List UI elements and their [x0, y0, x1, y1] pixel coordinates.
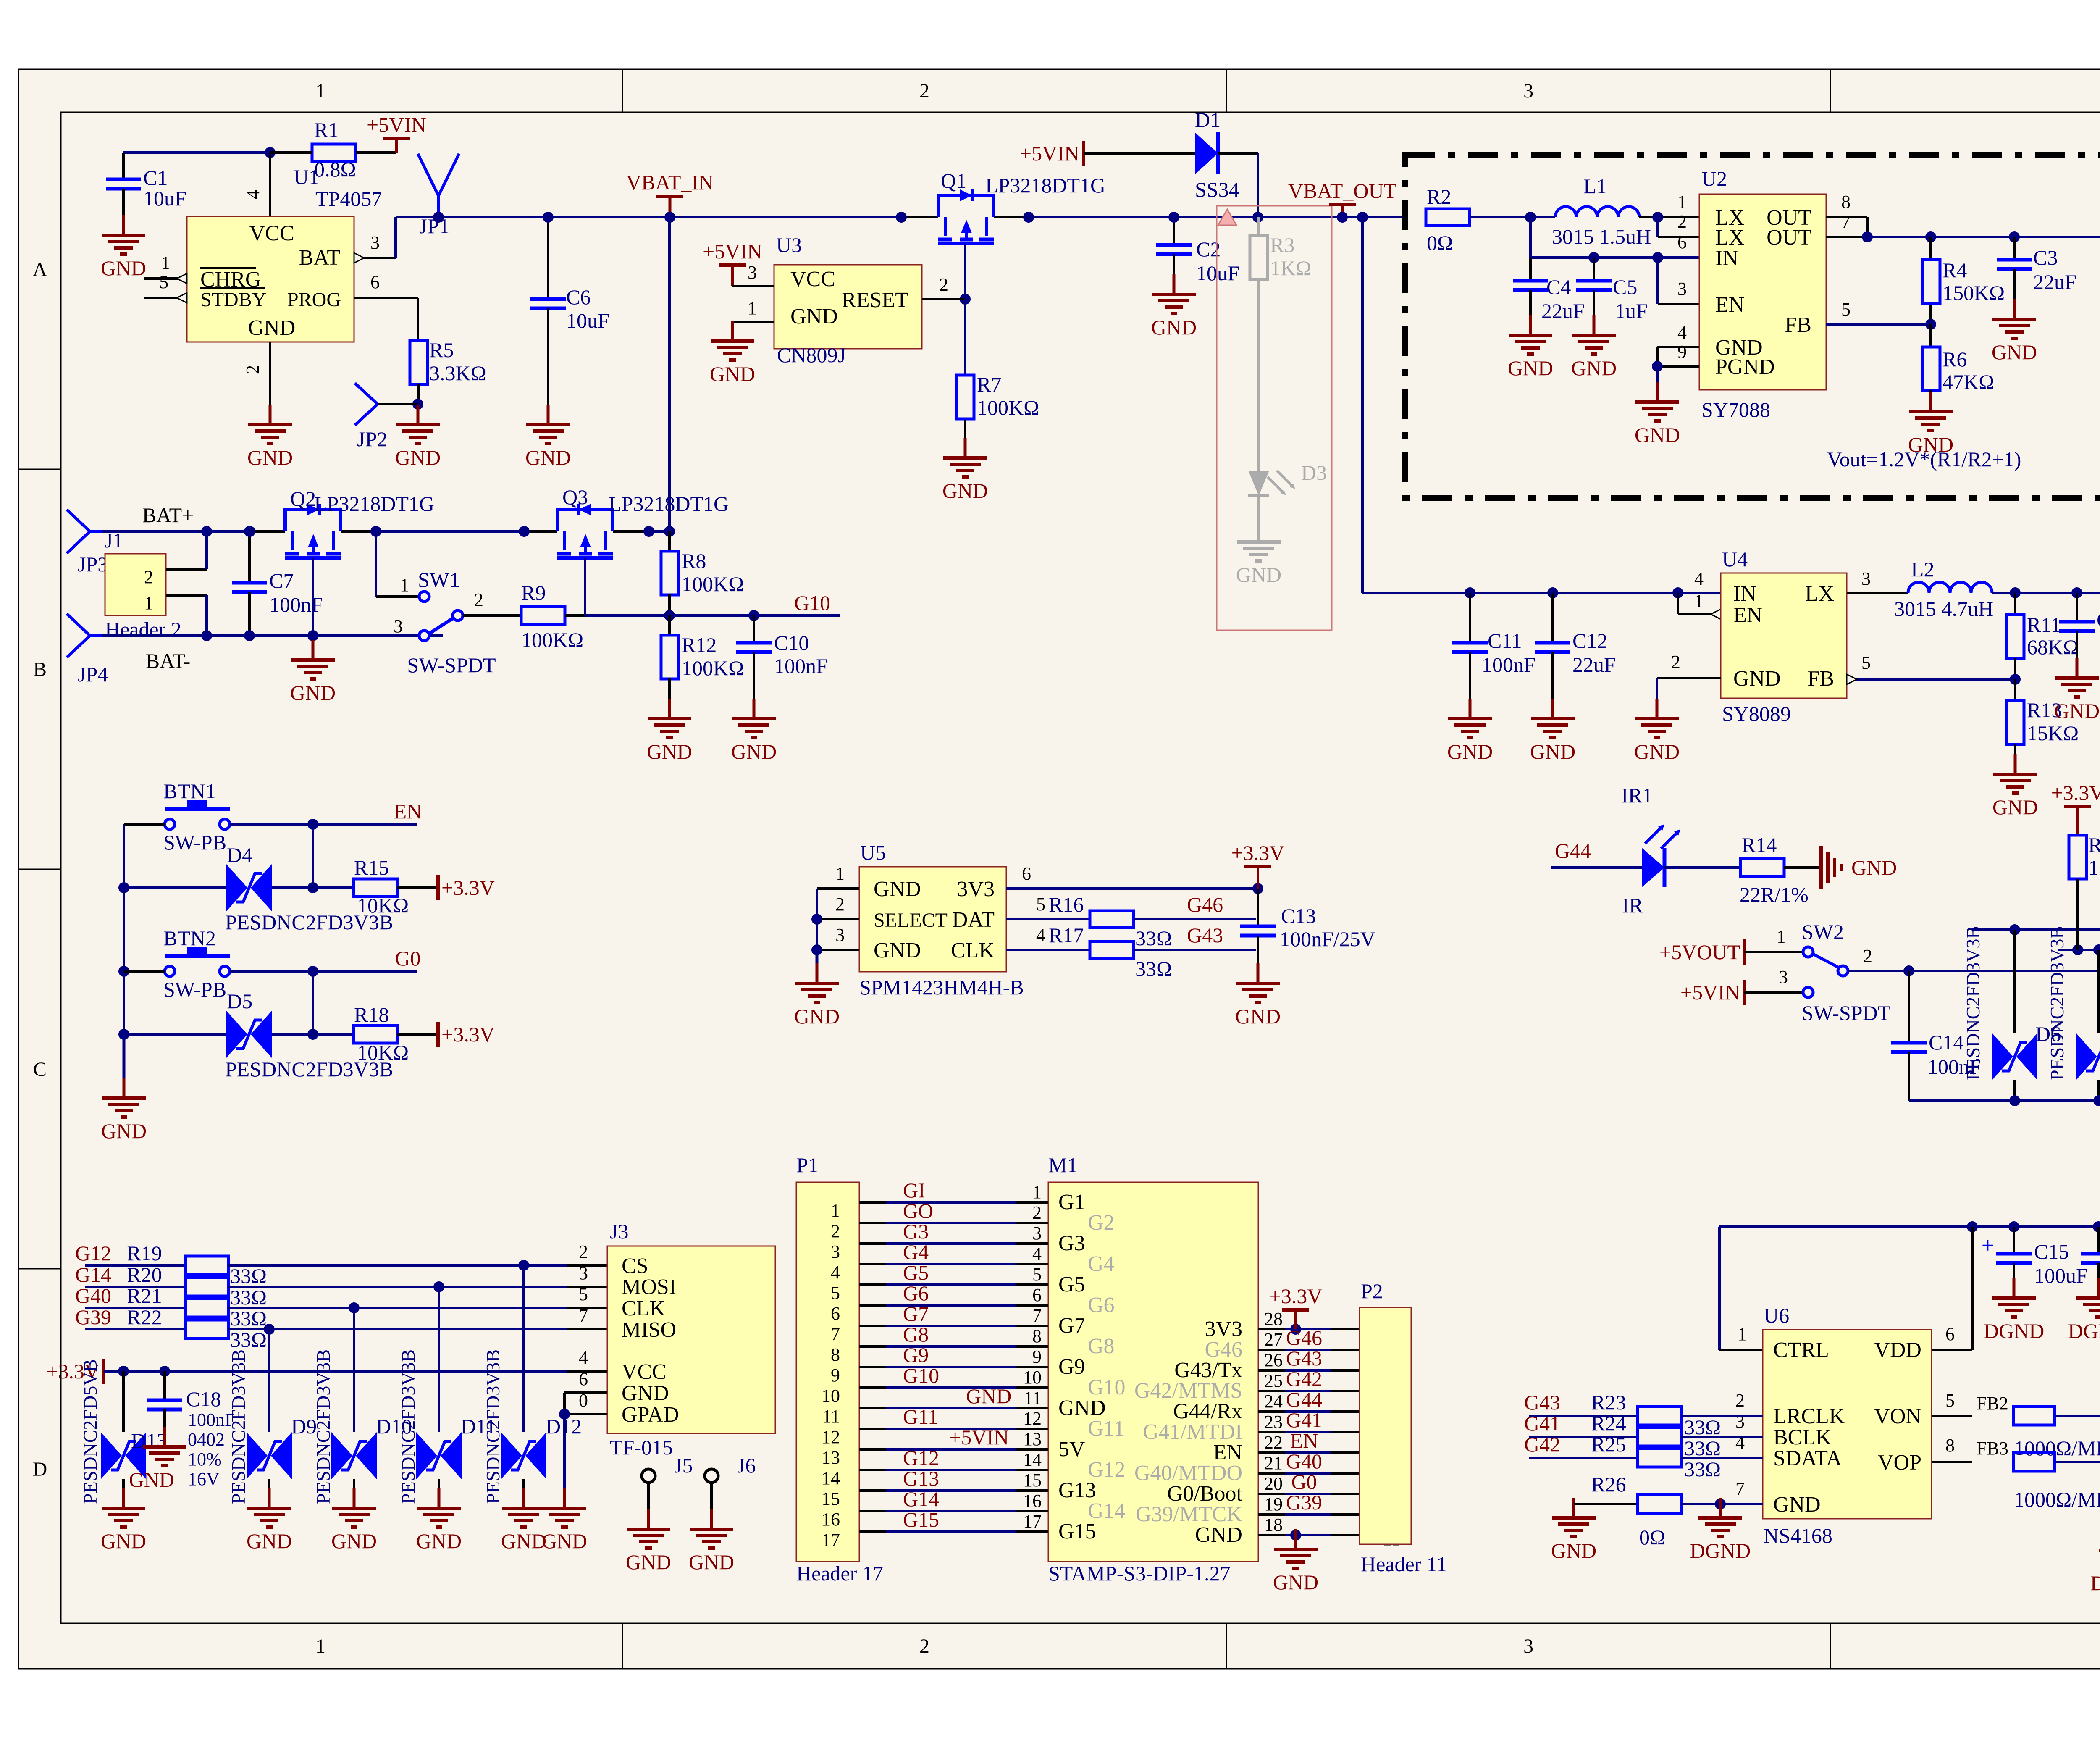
capacitor C11 — [1469, 593, 1471, 643]
VDD rail wire — [1719, 1225, 2100, 1228]
svg-text:6: 6 — [1032, 1285, 1042, 1305]
svg-text:1uF: 1uF — [1615, 299, 1648, 323]
svg-text:D13: D13 — [131, 1429, 167, 1452]
wire C1 to R1 — [123, 151, 270, 154]
svg-text:C7: C7 — [269, 569, 294, 592]
wire CTRL loop — [1718, 1227, 1721, 1350]
svg-text:21: 21 — [1264, 1453, 1283, 1473]
svg-text:G14: G14 — [75, 1263, 111, 1286]
U2 pin 8 7 out stubs — [1826, 216, 1867, 218]
svg-text:GND: GND — [626, 1550, 671, 1574]
node C18 — [159, 1366, 170, 1377]
svg-text:5: 5 — [831, 1283, 840, 1303]
wire rail to BTN2 — [124, 970, 165, 973]
wire pin4 riser — [269, 153, 271, 216]
wire P1-7 to M1 — [859, 1325, 886, 1327]
svg-text:D3: D3 — [1301, 461, 1327, 484]
svg-text:R6: R6 — [1942, 347, 1967, 371]
svg-text:G6: G6 — [1088, 1293, 1115, 1317]
svg-text:GND: GND — [290, 681, 336, 705]
svg-text:GND: GND — [1733, 667, 1781, 691]
svg-text:GND: GND — [1195, 1523, 1242, 1547]
svg-text:VCC: VCC — [790, 267, 835, 291]
svg-text:R17: R17 — [1049, 923, 1084, 947]
svg-text:1: 1 — [1694, 591, 1704, 611]
ground under M1 pin18 — [1290, 1530, 1301, 1541]
svg-text:U5: U5 — [860, 841, 886, 864]
resistor R12 — [668, 615, 671, 636]
svg-text:GND: GND — [416, 1529, 462, 1553]
svg-text:BAT+: BAT+ — [142, 503, 194, 527]
wire G43 to R23 — [1529, 1415, 1638, 1417]
svg-text:5: 5 — [1841, 299, 1851, 320]
ground under R12 — [668, 699, 671, 719]
svg-text:1: 1 — [1738, 1324, 1747, 1344]
side ground IR — [1819, 846, 1823, 889]
wire R8 to node — [668, 594, 671, 615]
svg-text:1000Ω/MB: 1000Ω/MB — [2014, 1488, 2100, 1511]
wire M1-27 to P2 — [1258, 1349, 1285, 1351]
U1 pin 2 GND stub — [269, 342, 271, 425]
ground under D3 greyed — [1257, 522, 1260, 542]
resistor R20 — [186, 1278, 228, 1296]
svg-text:CLK: CLK — [622, 1296, 665, 1320]
svg-text:L1: L1 — [1583, 174, 1607, 198]
resistor R13 — [2014, 679, 2016, 701]
svg-text:R2: R2 — [1427, 185, 1451, 208]
svg-text:14: 14 — [822, 1468, 840, 1488]
svg-text:+3.3V: +3.3V — [1231, 841, 1285, 865]
svg-text:GND: GND — [1508, 356, 1553, 380]
svg-text:20: 20 — [1264, 1473, 1283, 1494]
svg-text:6: 6 — [1677, 232, 1687, 252]
node pin9 — [1652, 361, 1663, 372]
wire R5 to JP2 node — [417, 384, 420, 404]
svg-text:SDATA: SDATA — [1773, 1446, 1842, 1470]
wire R17 to G43 — [1134, 949, 1256, 951]
svg-text:SY8089: SY8089 — [1722, 702, 1791, 726]
node J1 pin1 — [201, 630, 212, 641]
capacitor C10 — [753, 615, 755, 643]
svg-text:G3: G3 — [1058, 1231, 1085, 1255]
svg-text:3: 3 — [1677, 279, 1687, 299]
svg-text:U3: U3 — [776, 233, 802, 257]
node C7 top — [244, 526, 255, 537]
wire button rail — [123, 824, 125, 1034]
wire G40 row right — [228, 1307, 567, 1309]
resistor R22 — [186, 1320, 228, 1338]
U2 pins 4 9 ground stub — [1657, 346, 1699, 348]
svg-text:MISO: MISO — [622, 1318, 676, 1342]
svg-text:1: 1 — [315, 80, 325, 102]
svg-text:GND: GND — [1992, 340, 2037, 364]
node C7 bottom — [244, 630, 255, 641]
ground under C8 — [2076, 658, 2079, 678]
svg-text:TP4057: TP4057 — [315, 187, 382, 210]
svg-text:DGND: DGND — [2068, 1319, 2100, 1343]
svg-text:U2: U2 — [1701, 167, 1727, 190]
svg-text:1: 1 — [1677, 192, 1687, 212]
svg-text:STAMP-S3-DIP-1.27: STAMP-S3-DIP-1.27 — [1048, 1562, 1231, 1585]
svg-text:EN: EN — [394, 799, 422, 823]
wire P1-11 to M1 — [859, 1407, 886, 1409]
svg-text:GND: GND — [1634, 740, 1680, 763]
svg-text:Vout=1.2V*(R1/R2+1): Vout=1.2V*(R1/R2+1) — [1827, 447, 2021, 471]
svg-text:EN: EN — [1733, 603, 1762, 627]
wire M1-25 to P2 — [1258, 1390, 1285, 1392]
resistor R6 — [1929, 324, 1932, 348]
node C16 — [2093, 1221, 2100, 1232]
ic U3 CN809J box — [774, 265, 922, 349]
svg-text:+3.3V: +3.3V — [2051, 781, 2100, 805]
ground under U3 pin1 — [731, 321, 734, 341]
node D6 — [2009, 924, 2020, 935]
svg-text:BAT: BAT — [299, 246, 340, 270]
node R8 R12 — [664, 610, 675, 621]
svg-text:5: 5 — [159, 272, 168, 292]
U1 pin 6 PROG stub — [354, 297, 418, 299]
wire Q3 gate — [584, 558, 586, 615]
wire BTN1 to EN — [230, 823, 417, 826]
svg-text:GND: GND — [942, 479, 988, 502]
ground under C10 — [753, 699, 756, 719]
svg-text:2: 2 — [579, 1241, 588, 1262]
node C11 — [1465, 587, 1475, 598]
svg-text:SPM1423HM4H-B: SPM1423HM4H-B — [859, 975, 1024, 999]
resistor R15 — [354, 879, 397, 897]
svg-text:G41: G41 — [1286, 1408, 1322, 1432]
node D11 MOSI — [433, 1281, 444, 1292]
node R11 — [2010, 587, 2021, 598]
svg-text:7: 7 — [1032, 1305, 1042, 1326]
wire R26 to U6 GND — [1681, 1503, 1763, 1505]
svg-text:7: 7 — [1735, 1478, 1745, 1499]
svg-text:GND: GND — [874, 939, 921, 962]
node U4 riser — [1357, 212, 1368, 223]
pad J6 — [705, 1469, 718, 1483]
svg-text:C13: C13 — [1281, 904, 1316, 928]
capacitor C15 polarized — [2013, 1227, 2015, 1254]
svg-text:6: 6 — [1945, 1324, 1955, 1344]
svg-text:P2: P2 — [1361, 1279, 1383, 1303]
svg-text:3: 3 — [1735, 1411, 1745, 1432]
tvs diode D5 PESDNC2FD3V3B — [226, 1011, 247, 1058]
wire IN rail — [1530, 256, 1700, 259]
svg-text:5V: 5V — [1058, 1437, 1085, 1461]
resistor R5 — [410, 341, 428, 384]
ground under C4 — [1529, 315, 1532, 335]
svg-text:C6: C6 — [566, 285, 591, 309]
wire EN hook — [1656, 258, 1659, 304]
svg-text:10uF: 10uF — [143, 187, 186, 210]
svg-text:C14: C14 — [1929, 1031, 1963, 1054]
U5 left rail — [817, 887, 859, 890]
wire M1-18 to P2 — [1258, 1534, 1285, 1536]
transistor Q1 LP3218DT1G — [901, 216, 938, 218]
node D12 CS — [518, 1260, 529, 1271]
svg-text:RESET: RESET — [842, 288, 908, 312]
wire M1-20 to P2 — [1258, 1493, 1285, 1495]
U3 pin 1 stub — [732, 321, 774, 323]
resistor R11 — [2014, 593, 2016, 615]
svg-text:R22: R22 — [127, 1305, 162, 1329]
svg-text:R4: R4 — [1942, 258, 1967, 282]
svg-text:10uF: 10uF — [1196, 261, 1239, 285]
svg-text:GND: GND — [1530, 740, 1575, 763]
svg-text:G4: G4 — [1088, 1252, 1115, 1276]
U3 pin 2 RESET stub — [922, 298, 965, 300]
ground under R13 — [2014, 754, 2017, 774]
svg-text:C3: C3 — [2033, 246, 2058, 269]
node EN btn — [307, 819, 318, 830]
svg-text:9: 9 — [831, 1365, 840, 1386]
switch SW1 — [419, 592, 429, 602]
dground under C15 — [2013, 1278, 2016, 1298]
svg-text:3: 3 — [1861, 568, 1871, 589]
svg-text:5: 5 — [579, 1284, 588, 1304]
wire BAT riser to bus — [394, 217, 397, 258]
svg-text:150KΩ: 150KΩ — [1942, 281, 2005, 305]
ic U2 SY7088 box — [1699, 194, 1826, 390]
ground left of R26 — [1572, 1498, 1575, 1518]
svg-text:D5: D5 — [227, 989, 252, 1013]
svg-text:CLK: CLK — [951, 939, 995, 962]
svg-text:VCC: VCC — [249, 221, 294, 245]
svg-text:1: 1 — [1032, 1182, 1042, 1202]
svg-text:B: B — [33, 658, 47, 681]
svg-text:LX: LX — [1805, 582, 1834, 606]
svg-text:3015 4.7uH: 3015 4.7uH — [1894, 597, 1993, 621]
wire P1-16 to M1 — [859, 1510, 886, 1512]
svg-text:1: 1 — [315, 1635, 325, 1657]
svg-text:G43: G43 — [1187, 923, 1223, 947]
svg-text:7: 7 — [831, 1324, 840, 1344]
node C14 — [1903, 965, 1914, 976]
wire node to G10 — [585, 614, 840, 617]
svg-text:68KΩ: 68KΩ — [2027, 635, 2079, 659]
svg-text:IN: IN — [1733, 582, 1756, 606]
svg-text:18: 18 — [1264, 1515, 1283, 1535]
svg-text:1: 1 — [835, 863, 845, 884]
svg-text:DAT: DAT — [952, 908, 995, 932]
capacitor C7 — [248, 531, 251, 583]
node C13 top — [1252, 883, 1263, 894]
svg-text:GND: GND — [1851, 856, 1897, 879]
node D10 CLK — [349, 1302, 360, 1313]
svg-text:PESDNC2FD3V3B: PESDNC2FD3V3B — [228, 1349, 249, 1504]
resistor R8 — [668, 531, 671, 552]
svg-text:16: 16 — [1023, 1491, 1042, 1511]
U1 pin 3 BAT stub — [354, 257, 396, 259]
svg-text:R18: R18 — [354, 1003, 389, 1026]
wire R24 to U6 — [1681, 1436, 1763, 1438]
ground under BAT- rail — [312, 636, 315, 640]
module M1 STAMP-S3 box — [1048, 1182, 1258, 1562]
svg-text:GND: GND — [874, 877, 921, 901]
svg-text:R26: R26 — [1591, 1472, 1626, 1496]
svg-text:3: 3 — [1779, 967, 1788, 987]
svg-text:7: 7 — [1841, 211, 1851, 232]
resistor R26 — [1638, 1495, 1681, 1513]
svg-text:22: 22 — [1264, 1432, 1283, 1453]
tvs diode D9 PESDNC2FD3V3B — [268, 1329, 270, 1432]
svg-text:IR: IR — [1622, 894, 1643, 917]
node R3 bottom — [2072, 944, 2083, 955]
ground under U1 pin2 — [269, 405, 272, 425]
ground under D12 — [522, 1488, 525, 1508]
connector JP4 arrow — [90, 634, 102, 637]
wire PROG to R5 — [417, 298, 419, 341]
wire rail to BTN1 — [124, 823, 165, 826]
transistor Q3 LP3218DT1G — [524, 530, 557, 533]
wire R13 to ground — [2014, 744, 2016, 774]
svg-text:100uF: 100uF — [2034, 1264, 2088, 1287]
svg-text:GND: GND — [647, 740, 692, 763]
wire R14 to side ground — [1784, 866, 1821, 869]
svg-text:27: 27 — [1264, 1329, 1283, 1350]
svg-text:SW-PB: SW-PB — [163, 831, 226, 854]
node C2 — [1168, 212, 1179, 223]
svg-text:C15: C15 — [2034, 1240, 2069, 1263]
wire VBAT riser — [668, 217, 671, 531]
svg-text:GND: GND — [1551, 1539, 1596, 1562]
svg-text:6: 6 — [1022, 863, 1031, 884]
node GPAD — [559, 1409, 570, 1420]
svg-text:33Ω: 33Ω — [230, 1286, 267, 1309]
svg-text:P1: P1 — [796, 1153, 819, 1177]
tvs diode D13 PESDNC2FD5VB — [122, 1371, 125, 1432]
node FB — [1925, 319, 1936, 330]
capacitor C6 — [547, 217, 549, 299]
power flag +3.3V P2 — [1290, 1324, 1301, 1335]
header J1 box — [105, 554, 166, 615]
svg-text:GND: GND — [622, 1381, 669, 1405]
svg-text:G10: G10 — [903, 1364, 939, 1387]
svg-text:VON: VON — [1874, 1404, 1921, 1428]
svg-text:FB: FB — [1807, 667, 1834, 691]
wire U4 EN hook — [1677, 593, 1679, 614]
wire R4 to FB node — [1929, 305, 1932, 324]
svg-text:R23: R23 — [1591, 1391, 1626, 1414]
svg-text:1: 1 — [161, 252, 170, 273]
svg-text:2: 2 — [919, 1635, 929, 1657]
svg-text:GND: GND — [689, 1550, 734, 1574]
svg-text:R19: R19 — [127, 1241, 162, 1265]
svg-text:G0: G0 — [395, 947, 420, 970]
wire P1-15 to M1 — [859, 1489, 886, 1492]
svg-text:J6: J6 — [737, 1454, 756, 1477]
svg-text:22uF: 22uF — [1541, 299, 1585, 323]
wire D1 cathode to bus — [1218, 152, 1258, 155]
svg-text:PESDNC2FD3V3B: PESDNC2FD3V3B — [312, 1349, 334, 1504]
svg-text:PESDNC2FD3V3B: PESDNC2FD3V3B — [2046, 926, 2068, 1081]
capacitor C3 — [2013, 237, 2016, 260]
svg-text:6: 6 — [831, 1303, 840, 1324]
node C6 — [543, 212, 554, 223]
svg-text:G11: G11 — [1088, 1417, 1125, 1441]
svg-text:PESDNC2FD3V3B: PESDNC2FD3V3B — [482, 1349, 504, 1504]
tvs diode D12 PESDNC2FD3V3B — [522, 1265, 525, 1432]
capacitor C4 — [1529, 258, 1532, 281]
inductor L2 — [1908, 582, 1992, 593]
svg-text:GND: GND — [1635, 423, 1680, 447]
resistor R17 — [1090, 941, 1134, 958]
ground under button rail — [123, 1034, 126, 1078]
svg-text:G42: G42 — [1524, 1433, 1560, 1456]
resistor R21 — [186, 1299, 228, 1317]
ground under C3 — [2013, 299, 2016, 319]
svg-text:GI: GI — [903, 1178, 925, 1202]
tvs diode D7 PESDNC2FD3V3B — [2097, 950, 2100, 1033]
power flag +5VIN at U3 — [719, 263, 746, 267]
ground under C12 — [1551, 699, 1554, 719]
wire btn1 to D4 row — [312, 824, 314, 888]
svg-text:LP3218DT1G: LP3218DT1G — [985, 174, 1105, 197]
wire VDD riser — [1971, 1227, 1974, 1350]
svg-text:G5: G5 — [1058, 1273, 1085, 1296]
J1 pin2 stub — [166, 568, 207, 571]
svg-text:R3: R3 — [1270, 233, 1294, 257]
svg-text:G39: G39 — [1286, 1491, 1322, 1514]
U4 LX stub — [1847, 592, 1908, 594]
svg-text:IN: IN — [1715, 246, 1738, 270]
svg-text:100nF/25V: 100nF/25V — [1280, 927, 1375, 951]
svg-text:U4: U4 — [1722, 547, 1748, 571]
wire P1-6 to M1 — [859, 1304, 886, 1307]
svg-text:G42: G42 — [1286, 1367, 1322, 1391]
svg-text:+5VIN: +5VIN — [949, 1425, 1009, 1449]
wire IR1 to R14 — [1664, 866, 1740, 869]
node R4 — [1925, 231, 1936, 242]
svg-text:G11: G11 — [903, 1405, 938, 1428]
wire Q2 gate to BAT- rail — [312, 558, 314, 636]
wire R16 to G46 — [1134, 918, 1256, 920]
svg-text:+5VIN: +5VIN — [703, 239, 762, 263]
node C8 — [2071, 587, 2082, 598]
ground under J5 — [647, 1509, 650, 1529]
svg-text:G44: G44 — [1286, 1388, 1322, 1411]
wire R2 right — [1470, 216, 1555, 218]
ground under C1 — [122, 215, 125, 235]
svg-text:EN: EN — [1290, 1429, 1318, 1452]
svg-text:100nF: 100nF — [774, 654, 828, 678]
wire G14 row right — [228, 1286, 567, 1288]
wire M1-22 to P2 — [1258, 1451, 1285, 1454]
svg-text:BAT-: BAT- — [146, 649, 191, 673]
svg-text:9: 9 — [1677, 342, 1687, 362]
wire VON stub — [1932, 1415, 1972, 1417]
svg-text:Q1: Q1 — [941, 169, 966, 192]
svg-text:9: 9 — [1032, 1346, 1042, 1367]
power flag VBAT_OUT — [1341, 205, 1344, 217]
svg-text:EN: EN — [1715, 293, 1744, 317]
svg-text:G5: G5 — [903, 1261, 929, 1284]
wire G39 row right — [228, 1328, 567, 1330]
svg-text:GND: GND — [248, 316, 296, 340]
svg-text:4: 4 — [243, 190, 263, 199]
U4 pin 2 ground stub — [1657, 677, 1721, 679]
svg-text:5: 5 — [1945, 1390, 1955, 1411]
svg-text:8: 8 — [831, 1344, 840, 1365]
resistor R19 — [186, 1256, 228, 1275]
svg-text:R24: R24 — [1591, 1412, 1626, 1435]
svg-text:M1: M1 — [1048, 1153, 1077, 1177]
wire P1-14 to M1 — [859, 1469, 886, 1471]
node EN hook U4 — [1672, 587, 1683, 598]
svg-text:OUT: OUT — [1767, 226, 1811, 250]
wire R9 to gate corner — [565, 614, 585, 617]
svg-text:3: 3 — [748, 262, 757, 283]
